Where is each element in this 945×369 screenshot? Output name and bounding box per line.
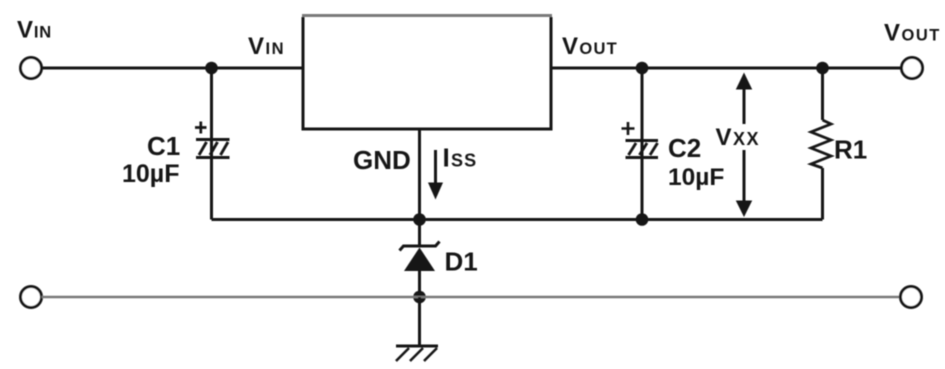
svg-text:D1: D1	[445, 247, 478, 277]
svg-text:10µF: 10µF	[668, 164, 724, 191]
zener diode D1 cathode bar	[400, 242, 440, 251]
wire: top output rail from regulator VOUT pin to VOUT terminal	[551, 67, 902, 70]
wire: lower rail from C1 to R1	[212, 218, 823, 221]
regulator U1 box	[302, 16, 553, 130]
terminal: input VIN (top-left open circle)	[21, 58, 42, 79]
wire: top input rail from VIN terminal to regulator VIN pin	[42, 67, 304, 70]
svg-text:VOUT: VOUT	[884, 20, 941, 47]
svg-text:C1: C1	[147, 131, 180, 161]
svg-text:ISS: ISS	[443, 143, 478, 173]
svg-text:R1: R1	[834, 135, 867, 165]
terminal: bottom-left open circle	[21, 287, 42, 308]
node: junction of R1 with output rail	[816, 62, 829, 75]
svg-text:10µF: 10µF	[122, 160, 179, 188]
node: junction of C2 with output rail	[636, 62, 649, 75]
wire: bottom return rail	[42, 296, 901, 299]
node: D1 junction with bottom rail	[413, 291, 426, 304]
wire: ground stub below bottom rail	[418, 297, 421, 346]
polarity plus sign of C2	[622, 122, 635, 135]
svg-text:VIN: VIN	[248, 33, 285, 60]
wire: regulator GND pin down to lower rail	[418, 129, 421, 220]
svg-text:GND: GND	[353, 145, 411, 175]
wire: D1 branch from lower rail down to bottom rail	[418, 220, 421, 247]
capacitor C1 symbol (polarized, hatched)	[196, 140, 230, 158]
terminal: bottom-right open circle	[901, 287, 922, 308]
ground symbol	[396, 346, 438, 361]
wire: C2 branch from output rail down to lower rail	[641, 68, 644, 220]
svg-text:VXX: VXX	[716, 124, 761, 151]
wire: R1 branch upper segment	[821, 68, 824, 120]
node: junction of C1 with input rail	[205, 62, 218, 75]
annotation arrow Vxx (double-headed, output to lower rail)	[736, 73, 752, 218]
wire: D1 anode to bottom rail	[418, 271, 421, 297]
svg-text:VIN: VIN	[17, 17, 52, 44]
wire: C1 branch from input rail down to lower rail	[210, 68, 213, 220]
svg-text:C2: C2	[668, 133, 701, 163]
polarity plus sign of C1	[195, 122, 207, 134]
resistor R1 zigzag	[811, 120, 831, 168]
svg-text:VOUT: VOUT	[562, 33, 618, 60]
node: junction of C2 with lower rail	[636, 213, 649, 226]
terminal: output VOUT (top-right open circle)	[902, 58, 923, 79]
current arrow Iss beside GND wire	[428, 150, 443, 200]
capacitor C2 symbol (polarized, hatched)	[626, 141, 659, 158]
zener diode D1 anode triangle	[404, 248, 435, 272]
node: GND branch junction with lower rail	[413, 213, 426, 226]
wire: R1 branch lower segment down to lower rail	[821, 168, 824, 220]
